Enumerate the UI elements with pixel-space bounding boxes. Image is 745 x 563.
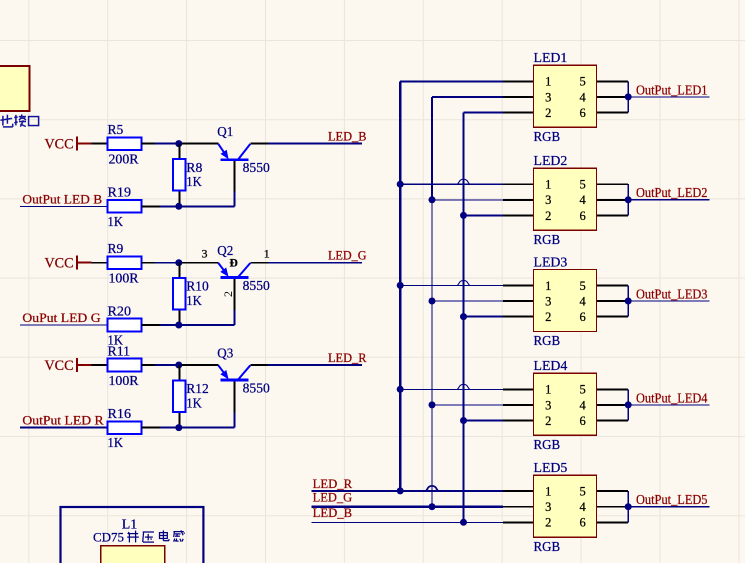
svg-text:2: 2: [545, 310, 551, 324]
svg-text:LED4: LED4: [534, 359, 568, 374]
svg-text:1: 1: [545, 75, 551, 89]
svg-text:LED_B: LED_B: [313, 506, 353, 520]
svg-text:R20: R20: [108, 304, 132, 319]
svg-text:R5: R5: [108, 123, 124, 138]
svg-text:VCC: VCC: [45, 358, 74, 374]
svg-text:Q1: Q1: [217, 125, 233, 140]
svg-text:LED_G: LED_G: [328, 249, 367, 263]
svg-text:3: 3: [545, 193, 551, 207]
svg-text:RGB: RGB: [534, 334, 561, 349]
svg-text:1K: 1K: [186, 396, 202, 411]
svg-text:LED_R: LED_R: [328, 351, 367, 365]
svg-text:R12: R12: [186, 382, 209, 397]
svg-text:OutPut_LED4: OutPut_LED4: [636, 391, 708, 406]
svg-text:100R: 100R: [109, 374, 140, 389]
svg-text:3: 3: [545, 90, 551, 104]
svg-text:Q3: Q3: [217, 346, 233, 361]
svg-text:RGB: RGB: [534, 540, 561, 555]
svg-text:4: 4: [579, 90, 586, 104]
svg-text:2: 2: [545, 106, 551, 120]
svg-text:LED1: LED1: [534, 51, 568, 66]
svg-text:Ð: Ð: [230, 257, 238, 269]
svg-text:1: 1: [545, 383, 551, 397]
svg-text:LED_B: LED_B: [328, 129, 367, 143]
svg-text:LED_R: LED_R: [313, 477, 353, 491]
svg-text:R19: R19: [108, 186, 132, 201]
svg-text:OuPut LED G: OuPut LED G: [22, 311, 100, 325]
svg-text:6: 6: [579, 106, 585, 120]
svg-text:R11: R11: [108, 345, 131, 360]
svg-text:RGB: RGB: [534, 233, 561, 248]
svg-text:200R: 200R: [109, 153, 140, 168]
svg-text:R16: R16: [108, 407, 132, 422]
svg-text:RGB: RGB: [534, 130, 561, 145]
svg-text:6: 6: [579, 310, 585, 324]
svg-text:2: 2: [545, 516, 551, 530]
svg-text:8550: 8550: [243, 381, 270, 396]
svg-text:6: 6: [579, 516, 585, 530]
svg-text:5: 5: [579, 383, 585, 397]
svg-text:1K: 1K: [186, 175, 202, 190]
svg-text:2: 2: [545, 209, 551, 223]
svg-text:3: 3: [545, 398, 551, 412]
svg-text:1K: 1K: [108, 436, 124, 451]
svg-text:1: 1: [264, 247, 270, 261]
svg-text:4: 4: [579, 500, 586, 514]
svg-text:8550: 8550: [243, 279, 270, 294]
svg-text:3: 3: [545, 294, 551, 308]
svg-text:100R: 100R: [109, 272, 140, 287]
svg-text:2: 2: [545, 414, 551, 428]
svg-text:2: 2: [221, 291, 235, 297]
svg-text:1K: 1K: [108, 215, 124, 230]
svg-text:1: 1: [545, 178, 551, 192]
svg-text:5: 5: [579, 75, 585, 89]
svg-text:3: 3: [545, 500, 551, 514]
svg-text:RGB: RGB: [534, 438, 561, 453]
svg-text:3: 3: [202, 247, 208, 261]
svg-text:OutPut LED B: OutPut LED B: [22, 192, 102, 206]
svg-text:5: 5: [579, 178, 585, 192]
svg-text:6: 6: [579, 209, 585, 223]
svg-text:LED3: LED3: [534, 255, 568, 270]
svg-text:4: 4: [579, 193, 586, 207]
svg-text:VCC: VCC: [45, 256, 74, 272]
svg-text:OutPut LED R: OutPut LED R: [22, 414, 104, 428]
svg-text:LED5: LED5: [534, 461, 568, 476]
svg-text:OutPut_LED1: OutPut_LED1: [636, 83, 708, 98]
svg-text:R9: R9: [108, 242, 124, 257]
svg-text:R10: R10: [186, 280, 209, 295]
svg-text:OutPut_LED5: OutPut_LED5: [636, 493, 708, 508]
svg-text:4: 4: [579, 294, 586, 308]
svg-text:1: 1: [545, 279, 551, 293]
svg-text:OutPut_LED3: OutPut_LED3: [636, 287, 708, 302]
svg-text:OutPut_LED2: OutPut_LED2: [636, 186, 708, 201]
svg-text:4: 4: [579, 398, 586, 412]
svg-text:LED_G: LED_G: [313, 491, 353, 505]
svg-text:1: 1: [545, 485, 551, 499]
svg-text:6: 6: [579, 414, 585, 428]
svg-text:1K: 1K: [186, 294, 202, 309]
svg-text:5: 5: [579, 279, 585, 293]
svg-text:5: 5: [579, 485, 585, 499]
svg-text:VCC: VCC: [45, 137, 74, 153]
svg-text:LED2: LED2: [534, 154, 568, 169]
svg-text:8550: 8550: [243, 161, 270, 176]
svg-text:R8: R8: [186, 161, 202, 176]
svg-text:CD75: CD75: [93, 530, 124, 545]
